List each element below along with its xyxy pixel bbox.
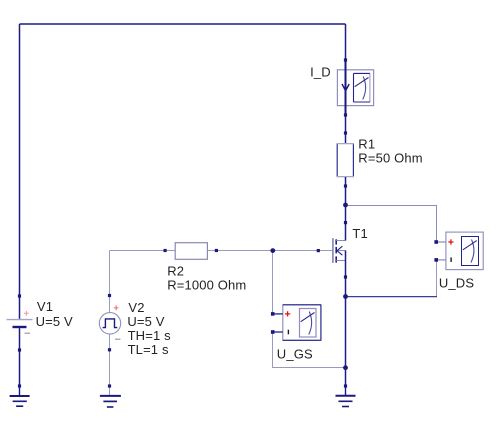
svg-text:I_D: I_D bbox=[310, 65, 331, 80]
svg-text:V2: V2 bbox=[128, 300, 144, 315]
svg-text:TL=1 s: TL=1 s bbox=[128, 342, 169, 357]
svg-text:R=50 Ohm: R=50 Ohm bbox=[358, 150, 422, 165]
svg-text:U=5 V: U=5 V bbox=[127, 314, 164, 329]
svg-text:V1: V1 bbox=[37, 299, 53, 314]
svg-text:R1: R1 bbox=[358, 137, 375, 152]
svg-text:U=5 V: U=5 V bbox=[36, 314, 73, 329]
svg-text:R=1000 Ohm: R=1000 Ohm bbox=[167, 278, 246, 293]
svg-text:U_DS: U_DS bbox=[439, 276, 474, 291]
svg-text:T1: T1 bbox=[352, 226, 367, 241]
svg-text:R2: R2 bbox=[167, 264, 184, 279]
svg-text:U_GS: U_GS bbox=[277, 347, 313, 362]
svg-text:TH=1 s: TH=1 s bbox=[128, 328, 172, 343]
